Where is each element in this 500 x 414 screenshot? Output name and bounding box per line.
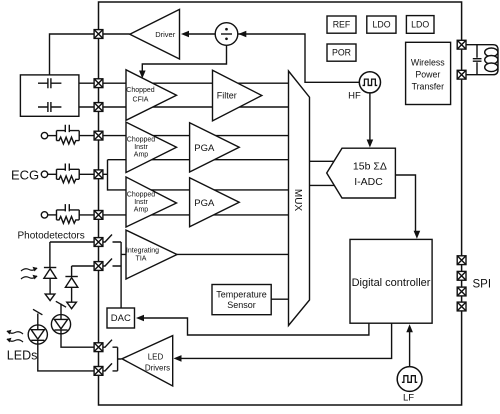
svg-text:Transfer: Transfer bbox=[412, 81, 444, 91]
svg-text:POR: POR bbox=[332, 48, 351, 58]
svg-text:SPI: SPI bbox=[473, 279, 492, 291]
svg-text:Chopped: Chopped bbox=[127, 192, 156, 199]
svg-text:Wireless: Wireless bbox=[411, 58, 445, 68]
svg-text:Instr: Instr bbox=[134, 199, 148, 206]
svg-text:DAC: DAC bbox=[111, 313, 131, 324]
svg-text:I-ADC: I-ADC bbox=[354, 176, 383, 188]
svg-text:Drivers: Drivers bbox=[145, 364, 170, 373]
svg-text:15b ΣΔ: 15b ΣΔ bbox=[353, 160, 387, 172]
svg-text:TIA: TIA bbox=[136, 255, 147, 262]
svg-text:Chopped: Chopped bbox=[126, 87, 155, 94]
svg-text:LEDs: LEDs bbox=[7, 349, 38, 363]
svg-text:Power: Power bbox=[415, 70, 440, 80]
svg-text:REF: REF bbox=[333, 20, 351, 30]
svg-text:Photodetectors: Photodetectors bbox=[18, 230, 85, 241]
svg-text:Chopped: Chopped bbox=[127, 137, 156, 144]
svg-text:CFIA: CFIA bbox=[133, 97, 149, 104]
svg-text:Instr: Instr bbox=[134, 144, 148, 151]
svg-text:PGA: PGA bbox=[194, 198, 215, 209]
svg-text:LDO: LDO bbox=[372, 20, 390, 30]
svg-text:Amp: Amp bbox=[134, 152, 149, 159]
svg-text:HF: HF bbox=[348, 91, 361, 102]
svg-text:LDO: LDO bbox=[411, 20, 429, 30]
svg-text:Integrating: Integrating bbox=[126, 247, 159, 254]
svg-text:ECG: ECG bbox=[11, 168, 39, 183]
svg-text:Temperature: Temperature bbox=[216, 289, 267, 299]
svg-text:Digital controller: Digital controller bbox=[352, 277, 431, 289]
svg-text:PGA: PGA bbox=[194, 143, 215, 154]
svg-text:LED: LED bbox=[148, 352, 164, 361]
svg-text:Driver: Driver bbox=[155, 30, 176, 39]
svg-text:MUX: MUX bbox=[292, 189, 303, 212]
svg-text:LF: LF bbox=[403, 393, 414, 404]
svg-text:Sensor: Sensor bbox=[227, 300, 256, 310]
svg-text:Amp: Amp bbox=[134, 207, 149, 214]
svg-text:Filter: Filter bbox=[217, 91, 237, 101]
